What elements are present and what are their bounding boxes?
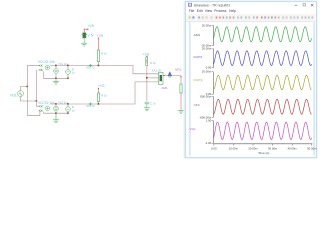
- wire VG1 top to left bus: [21, 87, 28, 91]
- svg-text:20.00m: 20.00m: [248, 147, 258, 151]
- svg-text:R 1k: R 1k: [101, 94, 107, 98]
- wire U1 output: [163, 75, 181, 77]
- junction RP2 bottom: [67, 112, 69, 114]
- junction IS1 bottom: [55, 77, 57, 79]
- svg-text:File: File: [189, 9, 195, 13]
- svg-text:30.00m: 30.00m: [268, 147, 278, 151]
- svg-text:50.00m: 50.00m: [307, 147, 317, 151]
- junction IS2 top: [55, 103, 57, 105]
- svg-text:VF3: VF3: [194, 103, 200, 107]
- controlled source VCCS1 inputs: [41, 65, 43, 71]
- capacitor/source RP2: [66, 107, 71, 112]
- svg-text:IOUT1: IOUT1: [86, 66, 95, 70]
- svg-text:1u: 1u: [72, 108, 76, 112]
- svg-text:Process: Process: [214, 9, 227, 13]
- trace AM1: [214, 27, 312, 42]
- resistor R5: [146, 57, 148, 65]
- svg-text:20.00m: 20.00m: [202, 47, 212, 51]
- wire VCCS1 lower output: [44, 71, 69, 78]
- capacitor/source RP1: [66, 70, 71, 75]
- svg-text:VG1: VG1: [10, 94, 17, 98]
- junction IS1 top: [55, 65, 57, 67]
- svg-text:+VS: +VS: [97, 34, 104, 38]
- svg-text:IOUT2: IOUT2: [194, 78, 203, 82]
- battery V1: [82, 33, 87, 38]
- svg-text:V 5: V 5: [88, 34, 93, 38]
- svg-text:R 1k: R 1k: [150, 61, 156, 65]
- junction VG1-top/left-bus: [26, 86, 28, 88]
- svg-text:+VS: +VS: [143, 52, 150, 56]
- junction RP2 top: [67, 103, 69, 105]
- wire VCCS2 lower output: [44, 112, 69, 113]
- client right strip: [313, 22, 315, 156]
- trace VF3: [214, 99, 312, 114]
- window buttons: [295, 4, 298, 6]
- controlled source VCCS2 inputs: [41, 105, 43, 111]
- controlled source VCCS1 output circle: [45, 65, 50, 70]
- junction R1/rail: [98, 65, 100, 67]
- svg-text:VG1: VG1: [190, 127, 196, 131]
- junction RP1 top: [67, 65, 69, 67]
- scope window frame: [184, 1, 317, 158]
- trace IOUT2: [214, 75, 312, 89]
- junction R2/rail: [98, 103, 100, 105]
- wire inner bus vertical: [37, 70, 40, 106]
- svg-text:0.00: 0.00: [206, 66, 212, 70]
- svg-text:AM1: AM1: [194, 33, 201, 37]
- ground (block2): [53, 120, 59, 123]
- svg-text:1.00: 1.00: [206, 119, 212, 123]
- svg-text:C 1n: C 1n: [150, 102, 156, 106]
- wire output down: [180, 76, 182, 84]
- wire IS1 stubs: [55, 66, 57, 69]
- wire top rail input: [27, 65, 39, 67]
- wire left bus vertical: [27, 66, 40, 116]
- ground (block1): [55, 78, 57, 81]
- wire RL to ground: [180, 93, 182, 110]
- svg-text:800.00m: 800.00m: [200, 94, 212, 98]
- svg-text:20.00m: 20.00m: [202, 70, 212, 74]
- voltage pin VF3 (probe arrow): [168, 72, 172, 76]
- svg-text:VF3: VF3: [175, 68, 181, 72]
- svg-text:AM1: AM1: [162, 86, 169, 90]
- capacitor C2: [145, 102, 150, 104]
- wire VG1 bottom to inner bus: [21, 97, 37, 101]
- title icon: [188, 3, 192, 7]
- svg-text:R 1k: R 1k: [101, 51, 107, 55]
- wire mid column: [146, 66, 148, 101]
- client left strip: [189, 22, 191, 156]
- junction IS2 bottom: [55, 112, 57, 114]
- wire middle input: [147, 77, 159, 79]
- x axis: [213, 143, 312, 145]
- wire top rail (long, IOUT1 net): [50, 66, 158, 74]
- wire battery top to +VS pin: [84, 29, 87, 33]
- svg-text:+VS: +VS: [88, 24, 95, 28]
- wire battery bottom: [83, 38, 85, 43]
- current arrow IOUT2: [89, 103, 92, 105]
- svg-text:0.00: 0.00: [211, 147, 217, 151]
- svg-text:VCCS1 10k: VCCS1 10k: [38, 60, 55, 64]
- svg-text:IS2 1m: IS2 1m: [59, 100, 69, 104]
- svg-text:10.00m: 10.00m: [229, 147, 239, 151]
- svg-text:View: View: [205, 9, 213, 13]
- svg-text:XA1 5k: XA1 5k: [152, 69, 162, 73]
- wire bottom rail (long, IOUT2 net): [50, 82, 158, 104]
- svg-text:Help: Help: [229, 9, 236, 13]
- wire to ground (block2): [55, 113, 57, 119]
- current arrow IOUT1: [89, 64, 92, 66]
- controlled source VCCS2 output circle: [45, 106, 50, 111]
- toolbar: [186, 14, 316, 22]
- svg-text:Time (s): Time (s): [258, 151, 269, 155]
- svg-text:Sinewave - TR result#1: Sinewave - TR result#1: [194, 3, 230, 7]
- resistor RL: [180, 84, 182, 93]
- ground (RL): [178, 111, 184, 114]
- svg-text:IOUT2: IOUT2: [86, 104, 95, 108]
- ground (C2): [144, 108, 150, 111]
- svg-text:1u: 1u: [72, 71, 76, 75]
- svg-text:Edit: Edit: [197, 9, 203, 13]
- svg-text:IS1 1m: IS1 1m: [59, 62, 69, 66]
- current source IS1: [54, 69, 59, 74]
- svg-text:+VS: +VS: [98, 84, 105, 88]
- svg-text:-1.00: -1.00: [205, 141, 212, 145]
- svg-text:40.00m: 40.00m: [288, 147, 298, 151]
- junction mid column / middle input: [146, 77, 148, 79]
- trace VG1: [214, 122, 312, 139]
- current source IS2: [54, 106, 59, 111]
- trace IOUT1: [214, 51, 312, 66]
- svg-text:VCCS2 10k: VCCS2 10k: [38, 101, 55, 105]
- subplot y-axes: [212, 26, 214, 46]
- junction RP1 bottom: [67, 77, 69, 79]
- svg-text:IOUT1: IOUT1: [194, 55, 203, 59]
- svg-text:20.00m: 20.00m: [202, 23, 212, 27]
- source VG1: [18, 91, 24, 97]
- junction VG1-bottom/inner-bus: [36, 100, 38, 102]
- ground (battery): [81, 43, 87, 46]
